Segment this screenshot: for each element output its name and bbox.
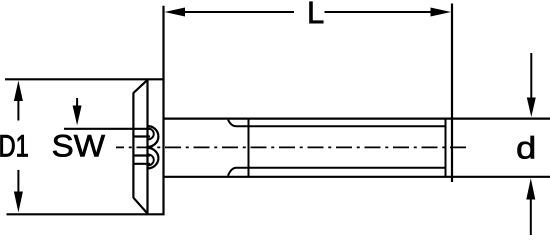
D1 label bbox=[1, 135, 28, 156]
d dimension up arrow bbox=[530, 199, 532, 235]
d label bbox=[518, 136, 534, 159]
centerline axis bbox=[116, 146, 469, 148]
full thread start vertical bbox=[248, 119, 250, 177]
L dimension left arrowhead bbox=[165, 8, 186, 17]
L label bbox=[310, 2, 324, 23]
thread runout top arc bbox=[228, 120, 237, 127]
SW leader down arrow bbox=[76, 98, 78, 106]
L dimension right arrowhead bbox=[431, 8, 452, 17]
SW label bbox=[53, 135, 105, 157]
head right edge with L extension line bbox=[162, 6, 164, 215]
thread runout bottom arc bbox=[228, 168, 237, 176]
head top edge bbox=[5, 78, 165, 80]
d dimension down arrow bbox=[530, 53, 532, 98]
hex socket corner line 3 bbox=[133, 154, 150, 156]
hex socket inner nested bottom arc bbox=[148, 154, 154, 165]
L dimension line right segment bbox=[325, 11, 432, 13]
D1 dimension up arrow bbox=[17, 100, 19, 121]
head top chamfer diagonal bbox=[133, 80, 147, 93]
shaft bottom edge bbox=[164, 176, 550, 178]
L dimension right extension line bbox=[451, 4, 453, 183]
head inner vertical rim edge bbox=[146, 79, 148, 214]
hex socket outer bulge bottom arc bbox=[148, 148, 159, 169]
head bottom chamfer diagonal bbox=[133, 198, 147, 213]
head chamfer shoulder vertical bbox=[132, 93, 134, 198]
shaft top edge bbox=[164, 117, 550, 119]
head bottom edge bbox=[7, 213, 165, 215]
hex socket corner line 2 bbox=[133, 135, 150, 137]
hex socket flat line SW bbox=[64, 128, 150, 130]
hex socket outer bulge top arc bbox=[148, 126, 159, 147]
D1 dimension down arrow bbox=[17, 170, 19, 192]
hex socket inner nested top arc bbox=[148, 128, 154, 139]
thread end chamfer vertical bbox=[445, 119, 447, 177]
thread root top line bbox=[237, 125, 446, 127]
L dimension line left segment bbox=[182, 11, 294, 13]
hex socket corner line 4 bbox=[133, 163, 150, 165]
thread root bottom line bbox=[237, 167, 446, 169]
